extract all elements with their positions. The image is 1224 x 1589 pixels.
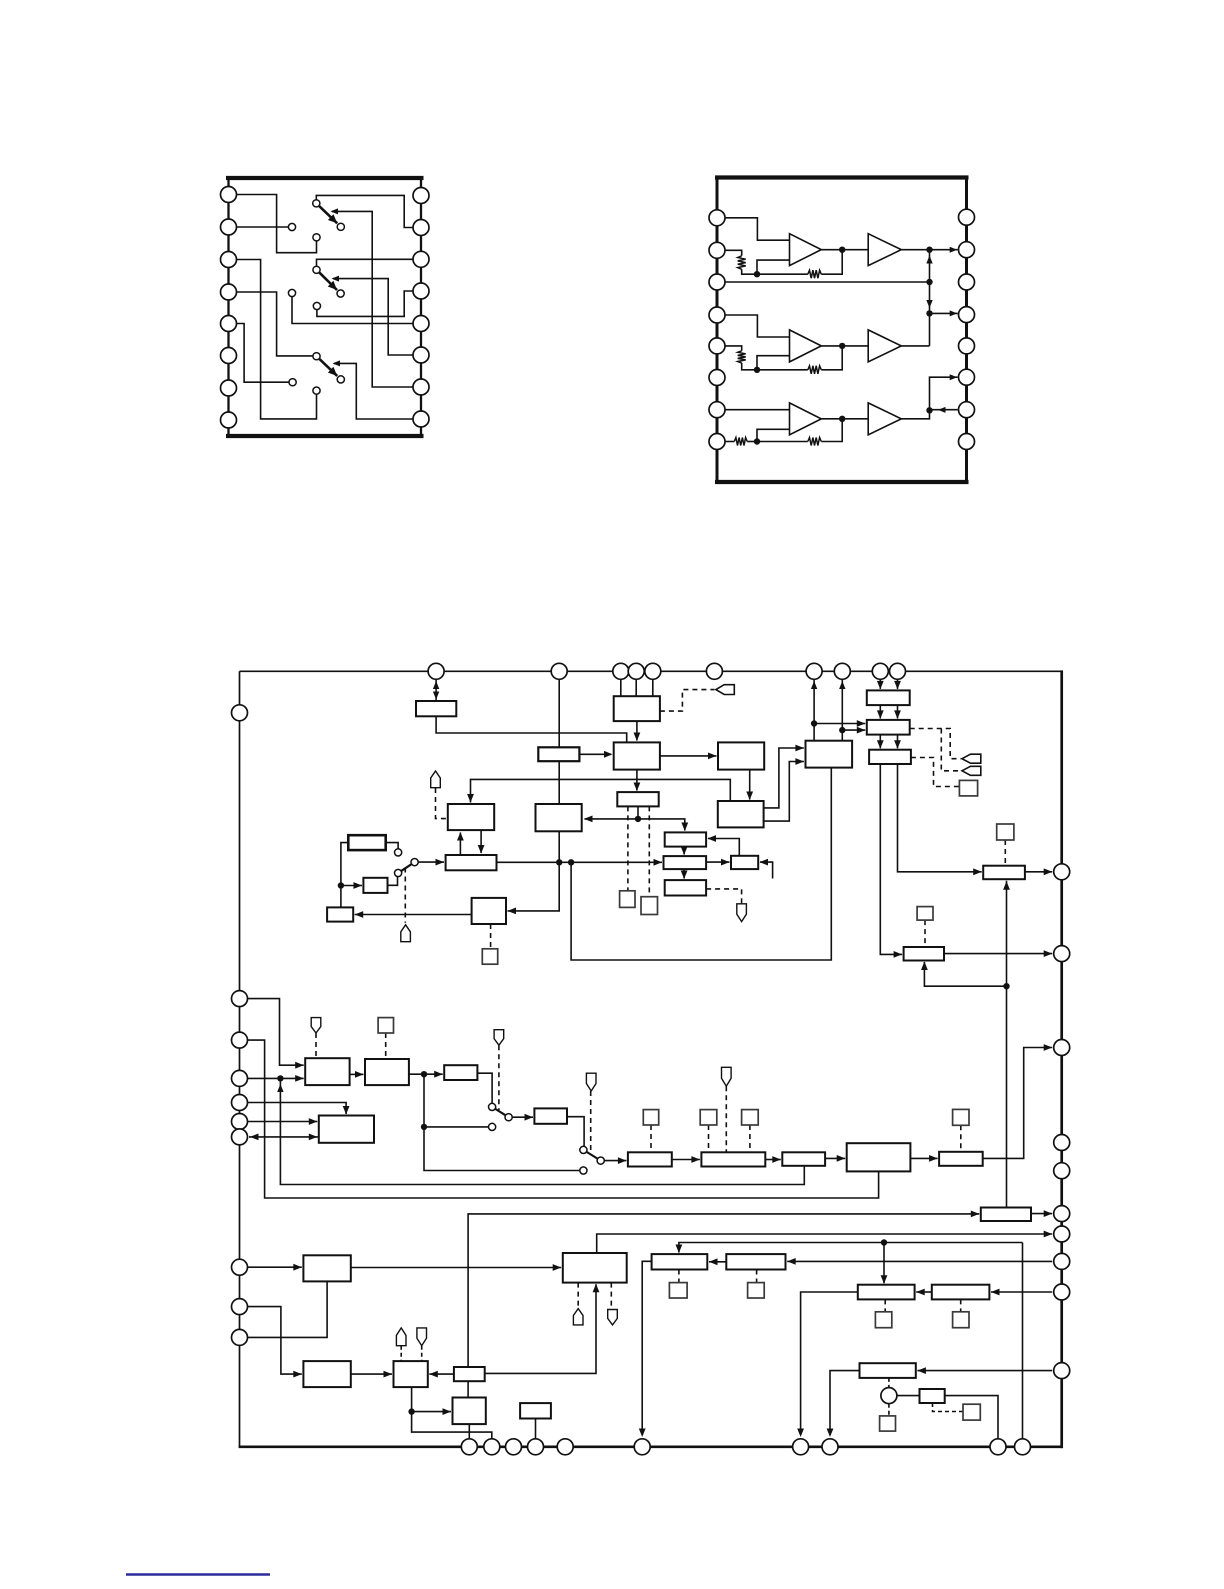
wire blk45 to pin-B1 xyxy=(468,1424,470,1446)
pin bottom6 U3 xyxy=(634,1439,650,1455)
pin 11 U1 xyxy=(413,347,429,363)
wire sq10 dashed xyxy=(749,1125,751,1152)
pin right5 U3 xyxy=(1054,1163,1070,1179)
wire sw3 control dashed xyxy=(590,1091,592,1152)
block blk42 xyxy=(303,1361,350,1387)
wire blk14 to blk18 a xyxy=(764,748,804,808)
node up arrow into junction xyxy=(277,1084,283,1092)
wire ch3 buffer out xyxy=(901,410,929,419)
pin 13 U2 xyxy=(959,307,975,323)
wire blk46 to pin-B4 xyxy=(535,1419,537,1447)
node blk32 in arrow xyxy=(691,1156,700,1163)
block blk22 xyxy=(305,1058,349,1085)
pin top10 U3 xyxy=(890,663,906,679)
wire pin3 to S3 contact B xyxy=(237,260,317,419)
wire sw2 pole to blk30 xyxy=(512,1116,533,1118)
wire pin-top8 up arrow line xyxy=(841,679,843,741)
pin 2 U1 xyxy=(221,219,237,235)
pin 10 U2 xyxy=(959,402,975,418)
wire blk37 to blk38 xyxy=(910,1157,937,1159)
wire blk6 to blk7 xyxy=(636,721,638,740)
wire blk12 to blk15 xyxy=(683,869,685,878)
block blk34 xyxy=(563,1253,627,1283)
node blk16 top arrow a xyxy=(877,681,884,690)
wire ch3 +input xyxy=(725,409,790,411)
block blk13 xyxy=(731,856,758,869)
node pin-L7 arrow xyxy=(250,1134,259,1141)
wire long line blk2-blk14 xyxy=(471,779,731,802)
pin top2 U3 xyxy=(551,663,567,679)
node blk42 in arrow xyxy=(293,1371,302,1378)
wire sw1 pole to blk3 xyxy=(418,861,444,863)
wire blk48 dashed to sq18 xyxy=(933,1403,964,1412)
node blk29 in arrow xyxy=(293,1264,302,1271)
pin 10 U1 xyxy=(413,379,429,395)
pin bottom9 U3 xyxy=(990,1439,1006,1455)
pin right1 U3 xyxy=(1054,864,1070,880)
wire blk30 to sw3 upper xyxy=(567,1117,584,1147)
wire pin-L2 to blk22 xyxy=(248,999,304,1066)
pin bottom3 U3 xyxy=(506,1439,522,1455)
node blk17 top arrow a xyxy=(877,710,884,719)
block blk17 xyxy=(867,720,910,735)
node blk40 top arrow xyxy=(881,1275,888,1284)
node blk9 bus junction xyxy=(635,816,641,822)
wire blk24 to blk25 xyxy=(409,1073,443,1075)
wire ch3 input res feed xyxy=(725,441,735,443)
wire node to sw3 lower contact xyxy=(424,1127,580,1171)
block blk19 xyxy=(869,750,911,764)
pin 9 U2 xyxy=(959,434,975,450)
pad sq10 xyxy=(742,1110,759,1125)
pin 12 U1 xyxy=(413,316,429,332)
block blk14 xyxy=(718,801,764,827)
wire sq-r2 dashed to blk20 xyxy=(1004,840,1006,866)
switch S3 pole contact xyxy=(313,353,320,360)
node blk37 in arrow xyxy=(837,1155,846,1162)
node bus up arrow xyxy=(926,256,932,264)
wire blk34 dashed b xyxy=(610,1283,612,1310)
pin right3 U3 xyxy=(1054,1040,1070,1056)
wire blk48 to pin-B9 xyxy=(945,1396,998,1446)
wire pin-L3 to blk37 xyxy=(248,1040,879,1198)
pin bottom10 U3 xyxy=(1015,1439,1031,1455)
wire sw2 control dashed xyxy=(498,1045,500,1110)
wire ch2 -input feed xyxy=(725,346,742,351)
wire top feed to blk35 and blk40 xyxy=(679,1243,1023,1253)
wire bus to pin13 xyxy=(930,312,958,314)
node ch3 out junction xyxy=(926,407,932,413)
node blk8 in arrow xyxy=(708,753,717,760)
wire pin15 S1 control xyxy=(332,211,413,387)
block blk8 xyxy=(718,742,764,769)
pin 7 U1 xyxy=(221,380,237,396)
block blk40 xyxy=(858,1285,915,1300)
wire blk44 to blk39 xyxy=(468,1214,979,1367)
block blk5 xyxy=(363,878,387,893)
wire pin-R8 to blk36 xyxy=(787,1260,1052,1262)
node blk19 top arrow b xyxy=(894,740,901,749)
node blk24 out junction xyxy=(421,1071,427,1077)
node pin13 arrow xyxy=(950,310,958,316)
pin 4 U1 xyxy=(221,284,237,300)
wire corner down to pin-B10 xyxy=(1022,1243,1024,1447)
node pin-R6 arrow xyxy=(1044,1210,1053,1217)
node ctrl circle xyxy=(881,1388,897,1404)
node pin-top8 arrow xyxy=(839,681,845,689)
node blk20 in arrow xyxy=(973,868,982,875)
node blk33 in arrow xyxy=(772,1156,781,1163)
wire node to blk45 xyxy=(412,1411,451,1413)
pin right7 U3 xyxy=(1054,1226,1070,1242)
node pin-top7 arrow xyxy=(811,681,817,689)
wire ch2 res to node xyxy=(742,363,757,370)
pin bottom5 U3 xyxy=(557,1439,573,1455)
wire ch1 node up to -input xyxy=(757,260,790,274)
pin right8 U3 xyxy=(1054,1253,1070,1269)
wire pin-R9 to blk41 xyxy=(991,1291,1052,1293)
wire stub to blk13 right xyxy=(760,862,773,878)
wire blk7 to blk9 xyxy=(636,770,638,791)
wire ch1 fb right xyxy=(821,250,842,275)
wire pin-L9 to blk42 xyxy=(248,1307,302,1375)
pin 3 U1 xyxy=(221,252,237,268)
wire sq8 dashed xyxy=(650,1125,652,1152)
buffer B2 xyxy=(868,330,901,362)
wire ch3 fb right xyxy=(821,419,842,442)
pad sq-r1 xyxy=(959,780,977,796)
node arrow down to blk1 xyxy=(433,692,439,700)
node blk18 junction a xyxy=(811,720,817,726)
node blk39 in arrow xyxy=(971,1211,980,1218)
testpoint pent11 xyxy=(396,1328,406,1346)
wire blk7 to blk8 xyxy=(660,755,717,757)
block blk35 xyxy=(652,1254,708,1269)
pin 14 U2 xyxy=(959,274,975,290)
footer rule xyxy=(126,1573,270,1576)
block blk39 xyxy=(981,1208,1031,1222)
switch SW2 lower contact xyxy=(489,1123,496,1130)
wire blk26 to pin-R2 xyxy=(944,953,1052,955)
wire sq14 dashed xyxy=(960,1125,962,1152)
testpoint pent-sw1 xyxy=(401,925,411,942)
node pin-B8 arrow xyxy=(827,1429,834,1438)
pad sq11 xyxy=(669,1283,687,1298)
node blk45 junction xyxy=(408,1408,414,1414)
block blk31 xyxy=(628,1152,672,1166)
node blk9 in arrow xyxy=(634,783,641,792)
wire blk34 top to pin-R7 xyxy=(597,1234,1052,1253)
resistor ch1 feedback xyxy=(808,270,822,278)
wire pin-top2 column xyxy=(558,679,560,862)
wire S2 pole to pin11 xyxy=(317,259,414,266)
testpoint pent1 xyxy=(431,771,441,788)
switch S1 throw contact xyxy=(337,223,344,230)
wire blk32 to blk33 xyxy=(765,1159,781,1161)
wire pin-L5 to blk27 top xyxy=(248,1103,347,1115)
node pin-R2 arrow xyxy=(1044,950,1053,957)
node ch3 input junction xyxy=(754,438,760,444)
wire blk35 dashed xyxy=(678,1270,680,1283)
wire pin-L4 to blk22 xyxy=(248,1077,304,1079)
wire pin4 to S3 pole xyxy=(237,292,313,356)
pin 1 U2 xyxy=(709,210,725,226)
wire blk35 to pin-B6 xyxy=(642,1261,651,1434)
switch S2 contact A xyxy=(288,289,295,296)
wire blk8 to blk14 xyxy=(749,770,751,800)
wire sw1 control dashed xyxy=(404,868,406,923)
switch S3 wiper xyxy=(320,359,338,376)
block blk21 xyxy=(327,907,353,921)
block blk26 xyxy=(904,947,944,961)
wire S1 pole to pin10 xyxy=(316,195,413,227)
pin 16 U2 xyxy=(959,209,975,225)
node blk36 in arrow xyxy=(787,1258,796,1265)
wire blk19 to blk26 xyxy=(880,764,902,954)
wire blk17 to blk19 a xyxy=(879,735,881,749)
node blk30 in arrow xyxy=(525,1114,534,1121)
wire ch2 node up xyxy=(757,356,790,370)
pin 6 U1 xyxy=(221,348,237,364)
wire sw3 pole to blk31 xyxy=(604,1160,626,1162)
block blk45 xyxy=(453,1398,486,1425)
pad sq-r2 xyxy=(997,824,1014,840)
wire node to blk33 bottom xyxy=(280,1078,804,1184)
wire blk29 to blk34 xyxy=(351,1267,561,1269)
node blk16 top arrow b xyxy=(894,681,901,690)
pin 9 U1 xyxy=(413,411,429,427)
wire pin16 S3 control xyxy=(334,363,413,419)
node blk20 bottom arrow xyxy=(1003,881,1010,890)
wire ch3 out to pin11 xyxy=(930,377,958,410)
wire branch to blk17 b xyxy=(842,729,865,731)
block blk16 xyxy=(867,690,910,705)
pin bottom1 U3 xyxy=(461,1439,477,1455)
switch SW2 pole xyxy=(505,1114,512,1121)
node blk40 junction xyxy=(881,1239,887,1245)
wire ch1 -input feed xyxy=(725,250,742,256)
wire blk39 up to blk20 xyxy=(1006,881,1008,1208)
block blk4 xyxy=(348,835,385,850)
node blk14 top arrow xyxy=(746,792,753,801)
wire blk12 to blk13 xyxy=(706,861,729,863)
wire blk6 dashed to flag0 xyxy=(660,690,715,712)
wire pin-top9 stub xyxy=(879,679,881,689)
wire blk40 to pin-B7 xyxy=(801,1292,858,1435)
pad sq14 xyxy=(953,1109,969,1125)
switch S1 wiper xyxy=(319,206,337,223)
pin bottom8 U3 xyxy=(822,1439,838,1455)
pin 6 U2 xyxy=(709,370,725,386)
pin left8 U3 xyxy=(232,1259,248,1275)
node pin-R3 arrow xyxy=(1044,1044,1053,1051)
pin left5 U3 xyxy=(232,1095,248,1111)
node ch3 fb junction xyxy=(839,416,845,422)
node blk34 bottom arrow xyxy=(593,1284,600,1293)
wire blk47 to pin-B8 xyxy=(830,1371,860,1435)
block blk27 xyxy=(319,1116,374,1143)
node blk13 in arrow xyxy=(721,859,730,866)
wire blk17 dashed branch to flag3 xyxy=(941,729,961,771)
wire pin5 to S3 contact A xyxy=(237,324,290,383)
pin 5 U1 xyxy=(221,316,237,332)
switch SW1 pole xyxy=(411,859,418,866)
pin left3 U3 xyxy=(232,1032,248,1048)
block blk47 xyxy=(860,1363,916,1378)
wire blk19 to blk20 xyxy=(898,764,982,872)
node blk35 top arrow xyxy=(676,1245,683,1254)
node bus junction3 xyxy=(926,310,932,316)
wire blk40 dashed xyxy=(884,1299,886,1311)
node blk22 in arrow b xyxy=(295,1075,304,1082)
node bus junction b xyxy=(568,859,574,865)
wire sq7 dashed xyxy=(924,920,926,947)
node blk26 in arrow xyxy=(894,951,903,958)
wire blk1 to blk7 xyxy=(436,716,627,742)
block blk33 xyxy=(782,1152,825,1166)
pin left10 U3 xyxy=(232,1329,248,1345)
wire pin2 to S1 contact A xyxy=(237,226,289,228)
node blk13 right arrow xyxy=(760,859,769,866)
wire node to blk5 xyxy=(341,885,362,887)
pin 4 U2 xyxy=(709,307,725,323)
block blk7 xyxy=(614,742,660,769)
node blk25 in arrow xyxy=(434,1071,443,1078)
pin 15 U2 xyxy=(959,242,975,258)
resistor ch2 feedback xyxy=(808,366,822,374)
node blk5 in arrow xyxy=(354,882,363,889)
node blk11 right arrow xyxy=(708,835,717,842)
block blk6 xyxy=(614,696,660,721)
node blk27 in arrow c xyxy=(309,1134,318,1141)
block blk32 xyxy=(701,1152,765,1166)
node blk38 in arrow xyxy=(929,1155,938,1162)
pin left9 U3 xyxy=(232,1299,248,1315)
node bus down arrow xyxy=(926,300,932,308)
node bus junction2 xyxy=(926,279,932,285)
block blk15 xyxy=(665,880,706,895)
node blk5 junction xyxy=(338,882,344,888)
pin 16 U1 xyxy=(413,188,429,204)
pad sq12 xyxy=(748,1283,765,1298)
pin left2 U3 xyxy=(232,991,248,1007)
block blk18 xyxy=(806,741,853,768)
wire pent8 dashed xyxy=(725,1086,727,1152)
wire blk38 to pin-R3 xyxy=(983,1048,1052,1159)
wire pin-top1 to blk1 double arrow xyxy=(435,679,437,701)
wire blkS to blk7 xyxy=(579,753,611,755)
node blk40 in arrow xyxy=(916,1289,925,1296)
block blk25 xyxy=(444,1065,477,1080)
wire blk4 to blk5 node xyxy=(341,843,348,886)
buffer B3 xyxy=(868,403,901,435)
node blk23 in arrow xyxy=(508,908,517,915)
wire circle to blk48 xyxy=(897,1395,919,1397)
block blk38 xyxy=(939,1152,983,1166)
IC2 outline U2 xyxy=(715,178,969,483)
wire node to blk21 xyxy=(340,886,342,908)
pin bottom4 U3 xyxy=(528,1439,544,1455)
wire ch3 res to node xyxy=(747,441,757,443)
switch S3 throw contact xyxy=(337,376,344,383)
buffer B1 xyxy=(868,234,901,266)
op-amp A1 xyxy=(790,234,822,266)
node blk15 top arrow xyxy=(681,871,688,880)
wire blk17 dashed to flag2 xyxy=(910,729,962,759)
wire ch2 fb left xyxy=(757,369,808,371)
wire blk13 to blk11 xyxy=(708,839,739,856)
node ch2 fb junction xyxy=(839,343,845,349)
switch S2 throw contact xyxy=(337,290,344,297)
wire ch3 node up xyxy=(757,429,790,441)
resistor ch3 feedback xyxy=(808,438,822,446)
switch SW3 upper contact xyxy=(580,1146,587,1153)
wire blk16 to blk17 b xyxy=(897,705,899,718)
wire pin-R10 to blk47 xyxy=(917,1370,1052,1372)
node S2 control arrow xyxy=(332,276,340,282)
block blk36 xyxy=(726,1254,785,1269)
block blk41 xyxy=(932,1285,990,1300)
IC3 outline U3 xyxy=(239,670,1063,1448)
node blk34 in arrow xyxy=(553,1264,562,1271)
node S1 control arrow xyxy=(331,208,339,214)
switch SW2 wiper xyxy=(496,1109,506,1115)
block blk30 xyxy=(534,1108,567,1123)
node pin-L4 junction xyxy=(277,1075,283,1081)
wire blk44 to blk45 xyxy=(467,1381,469,1397)
switch SW3 wiper xyxy=(587,1152,598,1159)
wire blk44 to blk34 bottom xyxy=(485,1284,596,1373)
node blk18 in arrow a xyxy=(795,745,804,752)
wire blk36 dashed xyxy=(756,1270,758,1283)
wire blk39 to pin-R6 xyxy=(1031,1213,1052,1215)
node arrow up to pin-top1 xyxy=(433,681,439,689)
wire blk36 to blk35 xyxy=(709,1261,726,1263)
wire blk5 to sw1 lower xyxy=(388,877,398,886)
pin left4 U3 xyxy=(232,1070,248,1086)
switch S1 contact A xyxy=(288,223,295,230)
wire flag1 dashed to blk2 xyxy=(436,788,447,819)
pin top3 U3 xyxy=(613,663,629,679)
pin 11 U2 xyxy=(959,369,975,385)
node blk21 in arrow xyxy=(355,911,364,918)
wire pin-top7 up arrow line xyxy=(813,679,815,741)
block blk23 xyxy=(472,898,506,924)
pin 1 U1 xyxy=(221,187,237,203)
pin 8 U1 xyxy=(221,412,237,428)
wire blk3 to blk12 bus xyxy=(497,861,663,863)
node blk17 in arrow b xyxy=(857,727,866,734)
wire branch to blk17 a xyxy=(814,723,865,725)
wire ch2 buffer out xyxy=(901,345,929,347)
wire blk22 to blk24 xyxy=(350,1073,364,1075)
wire blk4 to sw1 upper xyxy=(386,843,398,849)
wire pent11 dashed xyxy=(400,1346,402,1361)
wire blk34 dashed a xyxy=(577,1283,579,1309)
node blk12 top arrow xyxy=(681,847,688,856)
wire pin-L10 to blk29 bottom xyxy=(248,1281,328,1337)
pad sq9 xyxy=(700,1110,717,1125)
pad sq3 xyxy=(482,949,497,964)
wire pin-L6 to blk27 xyxy=(248,1121,318,1123)
wire node to sw2 lower contact xyxy=(424,1126,489,1128)
wire node to blk40 xyxy=(883,1243,885,1284)
pin left1 U3 xyxy=(232,705,248,721)
wire blk20 to pin-R1 xyxy=(1025,871,1052,873)
wire blk23 dashed xyxy=(490,924,492,949)
node ch1 input junction xyxy=(754,271,760,277)
wire pin-L8 to blk29 xyxy=(248,1266,302,1268)
